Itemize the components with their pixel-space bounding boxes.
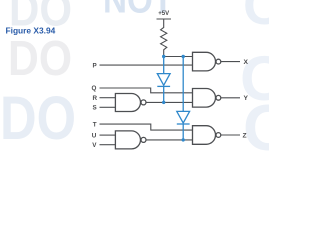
svg-text:O: O: [243, 0, 269, 36]
wire X output: [221, 61, 240, 63]
nand gate U1 (X): [193, 52, 216, 71]
wire Z output: [221, 134, 240, 136]
wire V stub: [100, 144, 116, 146]
wire U stub: [100, 134, 116, 136]
svg-text:DO: DO: [0, 84, 76, 152]
wire blue vertical 2 lower: [182, 124, 184, 140]
node junction dot C: [162, 101, 165, 104]
svg-text:Figure X3.94: Figure X3.94: [6, 25, 56, 35]
svg-text:S: S: [93, 105, 97, 112]
wire blue vertical 2 upper: [182, 57, 184, 112]
node junction dot A: [162, 55, 165, 58]
+5V power bar: [157, 19, 172, 26]
wire R stub: [100, 97, 116, 99]
diode D2: [177, 111, 190, 123]
wire P line: [100, 64, 193, 66]
svg-text:Y: Y: [244, 95, 249, 102]
node junction dot B: [182, 55, 185, 58]
nand gate U5 (Z): [193, 126, 216, 145]
wire blue vertical 1 upper: [163, 57, 165, 74]
resistor R1: [161, 26, 167, 57]
svg-text:P: P: [93, 62, 97, 69]
wire T line stepped: [100, 124, 193, 130]
svg-text:Q: Q: [92, 85, 97, 92]
svg-text:T: T: [93, 121, 97, 128]
wire Q line stepped: [100, 88, 193, 93]
nand gate U2 (QRS left): [115, 94, 140, 112]
wire Y output: [221, 97, 240, 99]
svg-text:V: V: [92, 142, 97, 149]
svg-text:U: U: [92, 132, 97, 139]
wire S stub: [100, 106, 116, 108]
wire UV-NAND output to Z gate: [146, 139, 193, 141]
node junction dot D: [182, 138, 185, 141]
svg-text:+5V: +5V: [158, 11, 169, 17]
wire blue vertical 1 lower: [163, 86, 165, 102]
wire node line to X gate: [164, 56, 193, 58]
svg-text:R: R: [93, 95, 98, 102]
diode D1: [157, 74, 170, 86]
nand gate U4 (TUV left): [115, 131, 140, 149]
nand gate U3 (Y): [193, 89, 216, 108]
svg-text:DO: DO: [8, 32, 72, 86]
svg-text:Z: Z: [243, 132, 247, 139]
wire RS-NAND output to Y gate: [146, 101, 193, 103]
svg-text:X: X: [244, 59, 249, 66]
